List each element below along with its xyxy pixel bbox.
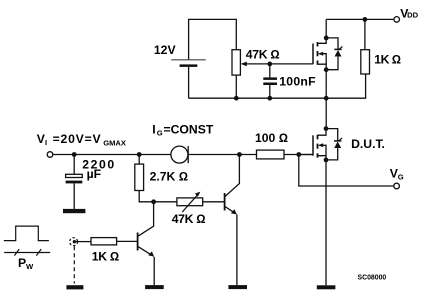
- transistor Q2 collector: [225, 155, 239, 197]
- battery 12V short plate: [180, 64, 198, 67]
- resistor 1K (bottom) body: [91, 238, 117, 245]
- svg-text:100nF: 100nF: [279, 75, 316, 89]
- wire: Q1 emitter down: [153, 257, 155, 285]
- svg-text:SC08000: SC08000: [358, 275, 387, 282]
- op MOSFET body stub with arrow: [322, 54, 326, 64]
- svg-text:100 Ω: 100 Ω: [255, 131, 288, 145]
- node: DUT drain: [324, 126, 329, 131]
- node: 2200uF tap: [72, 152, 77, 157]
- DUT drain stub: [318, 129, 327, 136]
- svg-text:P: P: [18, 256, 26, 270]
- svg-text:=20V=V: =20V=V: [53, 132, 102, 146]
- node: 100nF tap on wiper line: [267, 62, 272, 67]
- node: 100nF on bottom rail: [267, 96, 272, 101]
- dashed wire down: [73, 246, 75, 283]
- wire: DUT drain from rail: [325, 98, 327, 128]
- wire: battery negative to bottom rail: [188, 67, 190, 98]
- resistor 2.7K leads: [139, 155, 153, 202]
- ground (Q2): [228, 285, 247, 289]
- wire: 100 ohm to gate node: [284, 154, 313, 156]
- wiper arrow line to gate: [245, 63, 314, 65]
- svg-text:G: G: [398, 173, 404, 182]
- op MOSFET gate bar: [312, 44, 314, 65]
- wire: DUT gate lead: [299, 154, 313, 156]
- wire: main mid rail: [53, 154, 171, 156]
- DUT source stub: [318, 156, 327, 160]
- wire: 2200uF bottom lead: [73, 183, 75, 209]
- DUT body stub with arrow: [322, 145, 326, 155]
- slash 1: [14, 249, 19, 256]
- DUT body diode tick: [339, 138, 343, 141]
- svg-text:1K Ω: 1K Ω: [374, 53, 400, 67]
- terminal VDD: [394, 17, 400, 23]
- wire: 47K to Q2 base: [203, 201, 224, 203]
- node: 1K top on VDD rail: [363, 17, 368, 22]
- node: DUT gate: [296, 152, 301, 157]
- transistor Q2 emitter arrowhead: [231, 209, 237, 214]
- resistor 100 ohm body: [257, 150, 285, 159]
- wire: source down to bottom rail: [325, 70, 327, 99]
- terminal VI: [47, 152, 53, 158]
- transistor Q2 emitter: [225, 207, 235, 213]
- svg-text:W: W: [26, 262, 34, 271]
- svg-text:DD: DD: [407, 11, 418, 20]
- capacitor 100nF bottom plate: [263, 83, 277, 86]
- op MOSFET drain stub: [318, 38, 327, 43]
- DUT body diode triangle: [334, 142, 341, 149]
- wire: 1K top lead: [364, 19, 366, 49]
- battery 12V long plate: [171, 59, 206, 61]
- body diode triangle (top MOSFET): [335, 50, 342, 57]
- variable resistor 47K arrowhead: [195, 192, 201, 197]
- body diode tick (top MOSFET): [339, 46, 343, 49]
- wire: bottom rail of top section: [189, 74, 366, 98]
- ground (pulse): [66, 285, 83, 289]
- wire: Q2 emitter down: [236, 215, 238, 286]
- node: collector / 100 ohm left: [237, 152, 242, 157]
- current source bar: [187, 146, 189, 163]
- wire: 100nF bottom lead: [269, 85, 271, 98]
- pulse waveform symbol: [4, 226, 49, 241]
- wiper arrowhead: [241, 62, 247, 67]
- ground (Q1): [145, 285, 164, 289]
- variable resistor 47K body: [177, 198, 203, 206]
- svg-text:GMAX: GMAX: [103, 139, 126, 148]
- wire: DUT source down to ground: [325, 160, 327, 285]
- wire: pot bottom lead: [235, 75, 237, 98]
- transistor Q1 collector: [138, 202, 153, 236]
- resistor 2.7K body: [135, 164, 144, 190]
- label PW: [18, 256, 34, 271]
- node: pulse terminal dot: [73, 240, 76, 243]
- potentiometer 47K body: [232, 50, 240, 75]
- wire: 100nF top lead: [269, 64, 271, 78]
- DUT gate bar: [312, 135, 314, 155]
- pulse width measure line: [4, 252, 50, 254]
- svg-text:D.U.T.: D.U.T.: [351, 137, 385, 151]
- slash 2: [36, 249, 41, 256]
- op MOSFET source stub: [318, 64, 327, 70]
- transistor Q2 base bar: [224, 193, 226, 211]
- ground (DUT): [317, 285, 336, 289]
- transistor Q1 base bar: [137, 233, 139, 251]
- DUT body arrowhead: [318, 143, 323, 147]
- wire: current source to collector node: [188, 154, 256, 156]
- wire: node to 47K var resistor: [154, 201, 177, 203]
- wire: 1K to Q1 base: [117, 240, 137, 242]
- label IG=CONST: [152, 122, 214, 137]
- svg-text:47K Ω: 47K Ω: [246, 48, 280, 62]
- transistor Q1 emitter: [138, 247, 151, 255]
- DUT body diode cathode bar: [334, 140, 341, 142]
- svg-text:2.7K Ω: 2.7K Ω: [150, 169, 189, 183]
- wire: to 1K resistor: [76, 241, 91, 243]
- node: MOSFET source / DUT drain on bottom rail: [324, 96, 329, 101]
- current source IG circle: [171, 146, 188, 163]
- svg-text:µF: µF: [87, 167, 101, 181]
- transistor Q1 emitter arrowhead: [148, 251, 154, 256]
- terminal VG: [394, 183, 400, 189]
- svg-text:1K Ω: 1K Ω: [92, 250, 119, 264]
- wire: drain up to VDD rail: [325, 19, 327, 38]
- node: MOSFET drain: [324, 36, 329, 41]
- node: pot on bottom rail: [234, 96, 239, 101]
- ground (2200uF): [63, 209, 85, 213]
- wire: VDD rail: [326, 18, 394, 20]
- body diode branch wires (top MOSFET): [326, 38, 338, 70]
- DUT channel segments: [317, 135, 319, 158]
- svg-text:12V: 12V: [154, 43, 177, 57]
- svg-text:I: I: [152, 122, 155, 136]
- op MOSFET channel segments: [317, 42, 319, 65]
- wire: 2200uF top lead: [73, 155, 75, 175]
- body diode cathode bar (top MOSFET): [334, 48, 341, 50]
- capacitor 100nF top plate: [263, 77, 277, 80]
- wire: 12V loop top rail: [189, 19, 237, 59]
- capacitor 2200uF bottom plate: [66, 181, 83, 184]
- node: DUT source: [324, 158, 329, 163]
- variable resistor 47K arrow: [182, 194, 198, 212]
- svg-text:G: G: [157, 129, 163, 138]
- node: MOSFET source: [324, 67, 329, 72]
- pulse input terminal (dashed circle): [70, 238, 78, 246]
- label VG: [390, 167, 404, 182]
- resistor 1K (top right) body: [361, 50, 370, 74]
- svg-text:47K Ω: 47K Ω: [172, 212, 206, 226]
- DUT body diode branch wires: [326, 129, 338, 160]
- svg-text:I: I: [45, 138, 47, 147]
- label VI = 20V = VGMAX: [37, 132, 126, 148]
- wire: VG branch: [299, 155, 394, 187]
- node: 2.7K tap: [137, 152, 142, 157]
- op MOSFET body arrowhead: [318, 52, 323, 56]
- capacitor 2200uF top plate (hollow): [66, 174, 83, 177]
- node: 2.7K / 47K / collector junction: [151, 199, 156, 204]
- svg-text:=CONST: =CONST: [164, 122, 214, 136]
